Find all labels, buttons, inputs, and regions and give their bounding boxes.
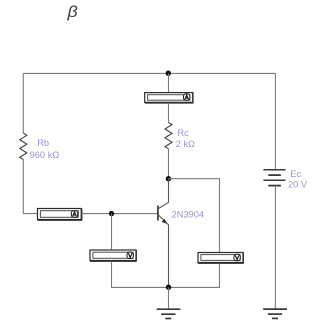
transistor Q1 2N3904 (158, 179, 169, 288)
node emitter junction (166, 285, 171, 290)
wire Rc to collector junction (168, 149, 170, 179)
svg-text:Rc: Rc (177, 128, 189, 138)
wire top horizontal (23, 72, 276, 74)
voltmeter VBE (90, 250, 137, 261)
svg-text:2N3904: 2N3904 (172, 209, 205, 219)
wire emitter junction to ground (168, 287, 170, 309)
collector lead (159, 179, 169, 209)
ground middle (157, 309, 181, 318)
ammeter collector branch (145, 93, 194, 104)
svg-text:Ec: Ec (290, 169, 301, 179)
emitter lead (159, 215, 169, 287)
wire collector junction to right voltmeter (169, 179, 220, 253)
wire left vertical lower (23, 160, 37, 214)
node collector junction (166, 176, 171, 181)
ground right (263, 309, 287, 318)
svg-text:Rb: Rb (37, 138, 49, 148)
resistor Rb (20, 133, 27, 159)
wire ammeter to base junction (82, 213, 158, 215)
base bar (157, 206, 159, 221)
wire battery to right ground (274, 186, 276, 310)
node top junction (166, 71, 171, 76)
svg-text:20 V: 20 V (288, 179, 308, 189)
ammeter base branch (38, 209, 83, 221)
wire ammeter to Rc (168, 103, 170, 123)
wire voltmeter VBE to bottom rail (112, 261, 169, 287)
emitter arrow (162, 219, 167, 224)
resistor Rc (165, 122, 172, 148)
battery Ec (263, 170, 285, 186)
wire top junction to ammeter (168, 73, 170, 92)
node base junction (109, 211, 114, 216)
svg-text:β: β (66, 4, 78, 21)
wire voltmeter VCE to bottom rail (169, 263, 220, 287)
svg-text:2 kΩ: 2 kΩ (176, 139, 195, 149)
voltmeter VCE (198, 253, 244, 264)
wire base junction down to voltmeter (111, 214, 113, 250)
wire right vertical battery top (274, 73, 276, 169)
svg-text:960 kΩ: 960 kΩ (30, 150, 60, 160)
wire left vertical upper (22, 73, 24, 133)
